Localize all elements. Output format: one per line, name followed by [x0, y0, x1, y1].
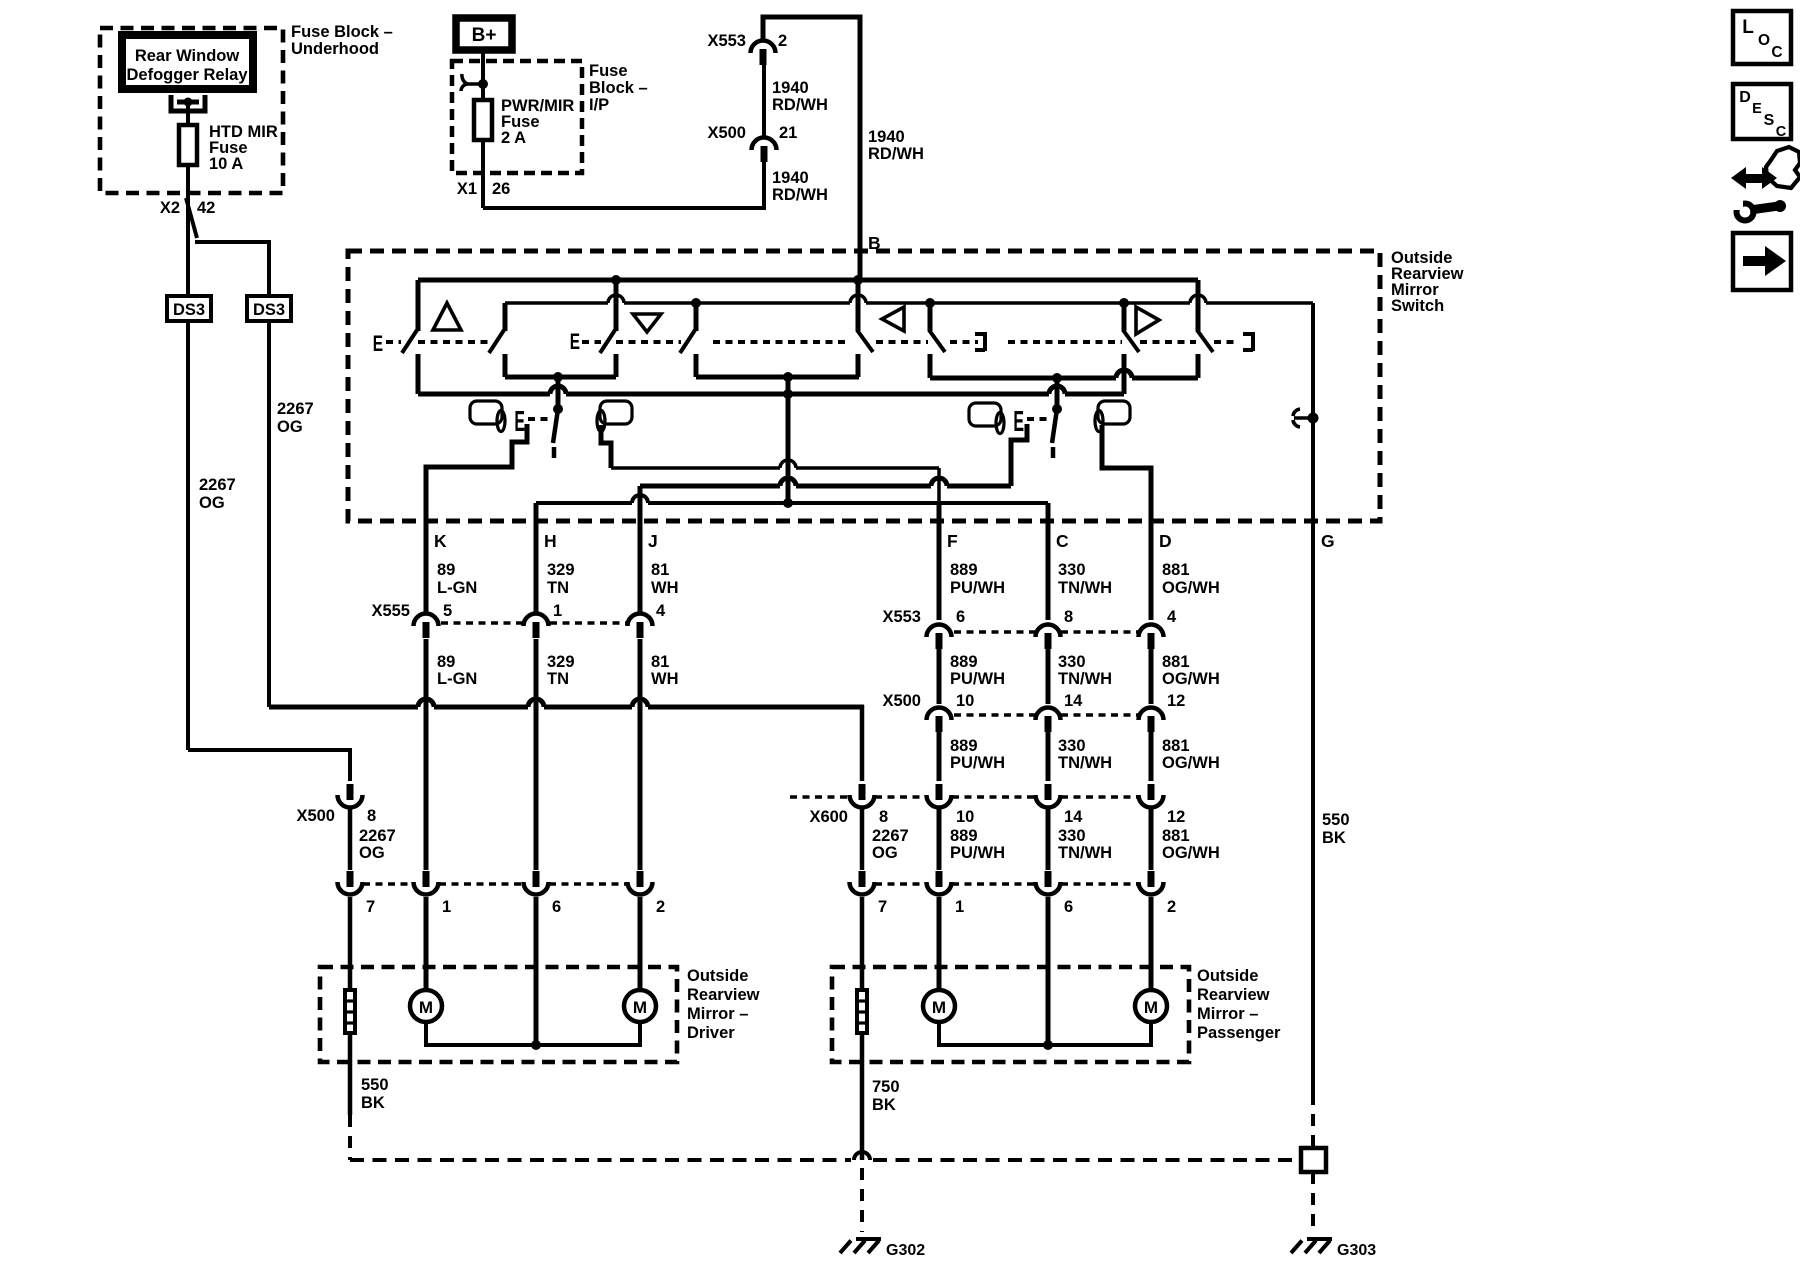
- connector X500 pin 10: [927, 708, 952, 721]
- svg-text:89: 89: [437, 653, 455, 671]
- svg-text:BK: BK: [1322, 829, 1346, 847]
- svg-text:1940: 1940: [772, 79, 809, 97]
- svg-text:L-GN: L-GN: [437, 670, 477, 688]
- svg-text:12: 12: [1167, 808, 1185, 826]
- svg-text:6: 6: [552, 898, 561, 916]
- svg-text:42: 42: [197, 199, 215, 217]
- svg-text:4: 4: [656, 602, 666, 620]
- svg-text:M: M: [932, 998, 946, 1017]
- svg-text:6: 6: [956, 608, 965, 626]
- fuse clip terminal: [461, 74, 483, 91]
- switch blade left-left: [857, 330, 873, 352]
- svg-text:881: 881: [1162, 653, 1190, 671]
- svg-text:WH: WH: [651, 670, 679, 688]
- wire 1940 RD/WH between connectors: [762, 65, 766, 137]
- svg-text:F: F: [947, 531, 958, 551]
- wire dashed below splice: [1311, 1172, 1315, 1232]
- driver mirror connector pin 2: [637, 871, 644, 887]
- wire 2267 corner down to X600: [860, 705, 865, 781]
- svg-text:M: M: [1144, 998, 1158, 1017]
- svg-text:750: 750: [872, 1078, 900, 1096]
- ground G302: [856, 1237, 881, 1241]
- outside rearview mirror driver dashed box: [320, 967, 677, 1062]
- switch second rail: [505, 301, 608, 305]
- wire select passenger from bracket: [1055, 378, 1060, 409]
- fuse F1 HTD MIR 10A: [179, 125, 197, 165]
- relay K: Rear Window Defogger Relay box: [122, 35, 253, 89]
- connector X553 dashes: [954, 630, 1035, 633]
- icon forward arrow box: [1733, 233, 1791, 290]
- svg-text:WH: WH: [651, 579, 679, 597]
- svg-text:DS3: DS3: [173, 301, 205, 319]
- svg-text:DS3: DS3: [253, 301, 285, 319]
- connector X553 pin 2: [751, 40, 776, 53]
- svg-text:Fuse: Fuse: [589, 62, 628, 80]
- svg-text:C: C: [1771, 44, 1782, 61]
- symbol triangle up: [433, 303, 461, 330]
- wire G inside box: [1311, 303, 1315, 1093]
- passenger mirror connector pin 7: [859, 871, 866, 887]
- svg-text:881: 881: [1162, 827, 1190, 845]
- svg-text:G303: G303: [1337, 1242, 1376, 1259]
- passenger mirror connector pin 1: [936, 871, 943, 887]
- svg-text:X553: X553: [707, 32, 746, 50]
- svg-text:889: 889: [950, 561, 978, 579]
- svg-text:Block –: Block –: [589, 79, 648, 97]
- svg-text:8: 8: [367, 807, 376, 825]
- wire G dashed above splice: [1311, 1093, 1315, 1148]
- wire D pin down: [1149, 468, 1154, 620]
- row C from H: [536, 501, 632, 505]
- svg-text:L: L: [1742, 17, 1754, 38]
- svg-text:RD/WH: RD/WH: [868, 145, 924, 163]
- svg-text:330: 330: [1058, 827, 1086, 845]
- motor M passenger vertical: [923, 990, 955, 1022]
- svg-text:329: 329: [547, 561, 575, 579]
- svg-text:889: 889: [950, 737, 978, 755]
- svg-text:Passenger: Passenger: [1197, 1024, 1281, 1042]
- splice DS3 right box: [247, 296, 291, 321]
- wire 2267 to driver mirror connector: [348, 808, 353, 870]
- driver mirror connector pin 6: [533, 871, 540, 887]
- icon repair instructions wrench: [1737, 204, 1754, 221]
- svg-text:O: O: [1758, 32, 1770, 49]
- passenger motor common bus: [939, 1022, 1151, 1045]
- wire select driver from bracket: [556, 377, 561, 409]
- linkage end bracket 1: [975, 332, 985, 351]
- svg-text:J: J: [648, 531, 658, 551]
- svg-text:D: D: [1739, 89, 1751, 106]
- wire passenger heater to 750 BK: [860, 1033, 865, 1160]
- svg-text:2267: 2267: [277, 400, 314, 418]
- wires F C D between X500 X600: [937, 731, 942, 781]
- switch bottom rail: [418, 392, 550, 397]
- driver mirror connector pin 1: [423, 871, 430, 887]
- svg-text:BK: BK: [872, 1096, 896, 1114]
- connector X600 pin 8: [859, 784, 866, 800]
- svg-text:6: 6: [1064, 898, 1073, 916]
- wire 1940 RD/WH run to X500: [483, 162, 764, 208]
- svg-text:81: 81: [651, 653, 669, 671]
- chassis clip on G wire: [1293, 409, 1311, 427]
- svg-text:E: E: [1013, 405, 1024, 437]
- svg-text:OG/WH: OG/WH: [1162, 579, 1220, 597]
- select switch passenger: [1052, 404, 1062, 414]
- svg-text:1: 1: [955, 898, 964, 916]
- svg-text:2 A: 2 A: [501, 129, 526, 147]
- svg-text:21: 21: [779, 124, 797, 142]
- wire J to driver motor 2: [638, 897, 643, 990]
- icon DESC box: [1733, 84, 1791, 139]
- svg-text:L-GN: L-GN: [437, 579, 477, 597]
- svg-text:TN/WH: TN/WH: [1058, 670, 1112, 688]
- wires F C D between X553 X500: [937, 648, 942, 704]
- switch up contact stubs: [416, 280, 421, 331]
- svg-text:X500: X500: [707, 124, 746, 142]
- mirror icon driver large: [600, 401, 632, 424]
- wire H below X555: [534, 639, 539, 870]
- splice square on G wire: [1301, 1148, 1326, 1172]
- wire H pin down: [534, 503, 539, 613]
- svg-text:E: E: [373, 332, 383, 356]
- connector X600 pin 10: [936, 784, 943, 800]
- svg-text:2: 2: [778, 32, 787, 50]
- row B from J: [640, 484, 780, 489]
- svg-text:RD/WH: RD/WH: [772, 186, 828, 204]
- icon LOC box: [1733, 11, 1791, 64]
- svg-text:2267: 2267: [872, 827, 909, 845]
- mirror icon driver small: [470, 401, 502, 424]
- svg-text:1: 1: [442, 898, 451, 916]
- wire splice to right DS3: [195, 242, 269, 296]
- linkage dashes up pair: [386, 340, 401, 344]
- passenger mirror connector pin 2: [1148, 871, 1155, 887]
- wire J below X555: [638, 639, 643, 870]
- svg-text:Rearview: Rearview: [1197, 986, 1270, 1004]
- svg-text:8: 8: [879, 808, 888, 826]
- svg-text:D: D: [1159, 531, 1172, 551]
- svg-text:Outside: Outside: [1197, 967, 1258, 985]
- svg-text:330: 330: [1058, 561, 1086, 579]
- svg-text:10 A: 10 A: [209, 155, 243, 173]
- wire 750 BK dashed to G302: [860, 1168, 864, 1232]
- connector X553 pin 8: [1036, 625, 1061, 638]
- connector X600 pin 14: [1045, 784, 1052, 800]
- wire fuse to X1-26: [481, 140, 485, 208]
- svg-text:C: C: [1056, 531, 1069, 551]
- svg-text:Mirror –: Mirror –: [687, 1005, 748, 1023]
- wire D to passenger motor 2: [1149, 897, 1154, 990]
- svg-text:Mirror –: Mirror –: [1197, 1005, 1258, 1023]
- switch blade down-right: [680, 330, 695, 353]
- svg-text:M: M: [633, 998, 647, 1017]
- wire relay terminal to fuse: [186, 104, 190, 125]
- svg-text:OG: OG: [277, 418, 303, 436]
- svg-text:1: 1: [553, 602, 562, 620]
- wire driver heater to 550 BK: [348, 1033, 353, 1115]
- motor M driver horizontal: [624, 990, 656, 1022]
- svg-text:TN/WH: TN/WH: [1058, 579, 1112, 597]
- fuse F2 PWR/MIR 2A: [474, 100, 492, 140]
- connector X553 pin 6: [927, 625, 952, 638]
- svg-text:Fuse Block –: Fuse Block –: [291, 23, 393, 41]
- wire 2267 OG from left DS3: [186, 321, 190, 750]
- wire C to passenger motor common bus: [1046, 897, 1051, 1045]
- connector X500 pin 14: [1036, 708, 1061, 721]
- svg-text:PU/WH: PU/WH: [950, 844, 1005, 862]
- switch blade right-right: [1197, 330, 1213, 352]
- connector X553 pin 4: [1139, 625, 1164, 638]
- connector X600 dashes: [790, 795, 849, 798]
- svg-text:E: E: [1752, 101, 1762, 117]
- svg-text:2267: 2267: [359, 827, 396, 845]
- wire 2267 OG thick run: [269, 705, 418, 710]
- motor M driver vertical: [410, 990, 442, 1022]
- svg-text:G: G: [1321, 531, 1335, 551]
- wire center vertical to row C: [786, 377, 791, 503]
- svg-text:X555: X555: [371, 602, 410, 620]
- svg-text:E: E: [570, 330, 580, 354]
- svg-text:7: 7: [878, 898, 887, 916]
- symbol triangle right: [1136, 307, 1159, 334]
- bracket driver adjust: [505, 375, 616, 380]
- wire K pin down: [424, 467, 429, 613]
- svg-text:BK: BK: [361, 1094, 385, 1112]
- svg-text:I/P: I/P: [589, 96, 609, 114]
- mirror icon passenger large: [1098, 401, 1130, 424]
- svg-text:4: 4: [1167, 608, 1177, 626]
- icon repair instructions panel outline: [1766, 147, 1800, 188]
- svg-text:OG/WH: OG/WH: [1162, 844, 1220, 862]
- connector X500 pin 8 left: [347, 784, 354, 800]
- svg-text:E: E: [514, 405, 525, 437]
- svg-text:PU/WH: PU/WH: [950, 579, 1005, 597]
- svg-text:881: 881: [1162, 561, 1190, 579]
- heater element passenger: [857, 990, 867, 1033]
- svg-text:M: M: [419, 998, 433, 1017]
- linkage end bracket 2: [1243, 332, 1253, 351]
- connector X600 pin 12: [1148, 784, 1155, 800]
- svg-text:X500: X500: [882, 692, 921, 710]
- wire into driver heater: [348, 897, 353, 990]
- svg-text:10: 10: [956, 808, 974, 826]
- svg-text:X553: X553: [882, 608, 921, 626]
- motor M passenger horizontal: [1135, 990, 1167, 1022]
- switch feed rail top: [418, 278, 1198, 283]
- svg-text:B+: B+: [472, 25, 497, 46]
- svg-text:12: 12: [1167, 692, 1185, 710]
- svg-text:TN: TN: [547, 670, 569, 688]
- relay output terminal: [171, 95, 205, 111]
- connector X555 pin 1: [524, 614, 549, 627]
- svg-text:1940: 1940: [772, 169, 809, 187]
- passenger mirror connector dashes: [875, 882, 926, 885]
- svg-text:89: 89: [437, 561, 455, 579]
- splice DS3 left box: [167, 296, 211, 321]
- svg-text:2267: 2267: [199, 476, 236, 494]
- svg-text:K: K: [434, 531, 447, 551]
- switch lower stubs: [416, 354, 421, 394]
- fuse block I/P dashed box: [452, 61, 582, 173]
- wire B+ into fuse block: [481, 50, 485, 100]
- switch blade right-left: [1123, 330, 1139, 352]
- svg-text:329: 329: [547, 653, 575, 671]
- ground G303: [1307, 1237, 1332, 1241]
- svg-text:TN/WH: TN/WH: [1058, 844, 1112, 862]
- svg-text:881: 881: [1162, 737, 1190, 755]
- svg-text:X2: X2: [160, 199, 180, 217]
- wire 1940 RD/WH to switch pin B: [763, 17, 860, 280]
- svg-text:PU/WH: PU/WH: [950, 670, 1005, 688]
- wire F pin down: [937, 503, 942, 620]
- svg-text:H: H: [544, 531, 557, 551]
- bracket passenger adjust: [930, 376, 1116, 381]
- wire 550 BK dashed drop: [348, 1115, 352, 1160]
- wire C pin down: [1046, 503, 1051, 620]
- mirror icon passenger small: [969, 403, 1001, 426]
- svg-text:X1: X1: [457, 180, 477, 198]
- wire left branch to X500-8: [188, 750, 350, 781]
- svg-text:8: 8: [1064, 608, 1073, 626]
- linkage dashes across to left pair: [713, 340, 845, 344]
- svg-text:7: 7: [366, 898, 375, 916]
- svg-text:PU/WH: PU/WH: [950, 754, 1005, 772]
- svg-text:81: 81: [651, 561, 669, 579]
- svg-text:889: 889: [950, 827, 978, 845]
- linkage dashes left pair: [876, 340, 928, 344]
- wire H to driver motor common bus: [534, 897, 539, 1045]
- switch blade left-right: [929, 330, 945, 352]
- svg-text:Switch: Switch: [1391, 297, 1444, 315]
- svg-text:10: 10: [956, 692, 974, 710]
- connector X555 pin 5: [414, 614, 439, 627]
- connector X500 pin 21: [752, 138, 777, 151]
- wire fuse to X2-42: [186, 165, 190, 296]
- connector X500 pin 12: [1139, 708, 1164, 721]
- svg-text:330: 330: [1058, 653, 1086, 671]
- svg-text:550: 550: [361, 1076, 389, 1094]
- connector X555 dashes: [441, 621, 523, 624]
- svg-text:X500: X500: [296, 807, 335, 825]
- switch blade up-left: [402, 330, 417, 353]
- svg-text:TN/WH: TN/WH: [1058, 754, 1112, 772]
- svg-text:2: 2: [1167, 898, 1176, 916]
- svg-text:C: C: [1776, 124, 1787, 140]
- wire select driver left contact to K: [426, 424, 527, 521]
- wire K to driver motor 1: [424, 897, 429, 990]
- driver motor common bus: [426, 1022, 640, 1045]
- select switch driver: [553, 404, 563, 414]
- fuse block underhood dashed box: [100, 28, 283, 193]
- svg-text:Defogger Relay: Defogger Relay: [126, 66, 248, 84]
- svg-text:889: 889: [950, 653, 978, 671]
- driver mirror connector pin 7: [347, 871, 354, 887]
- wire select passenger right contact to D: [1102, 425, 1151, 521]
- svg-text:14: 14: [1064, 692, 1083, 710]
- svg-text:1940: 1940: [868, 128, 905, 146]
- svg-text:X600: X600: [809, 808, 848, 826]
- svg-text:550: 550: [1322, 811, 1350, 829]
- wire J pin down: [638, 486, 643, 613]
- svg-text:26: 26: [492, 180, 510, 198]
- row A: [611, 466, 780, 470]
- wire into passenger heater: [860, 897, 865, 990]
- svg-text:OG/WH: OG/WH: [1162, 754, 1220, 772]
- switch blade down-left: [600, 330, 615, 353]
- svg-text:Driver: Driver: [687, 1024, 735, 1042]
- svg-text:TN: TN: [547, 579, 569, 597]
- heater element driver: [345, 990, 355, 1033]
- battery feed B+ box: [456, 18, 512, 50]
- svg-text:5: 5: [443, 602, 452, 620]
- svg-text:Rear Window: Rear Window: [135, 47, 240, 65]
- driver mirror connector dashes: [363, 882, 413, 885]
- connector X555 pin 4: [628, 613, 653, 626]
- switch blade up-right: [489, 330, 504, 353]
- svg-text:Outside: Outside: [687, 967, 748, 985]
- svg-text:G302: G302: [886, 1242, 925, 1259]
- svg-text:RD/WH: RD/WH: [772, 96, 828, 114]
- svg-text:Rearview: Rearview: [687, 986, 760, 1004]
- wire 2267 OG from right DS3: [267, 321, 271, 707]
- svg-text:S: S: [1764, 112, 1775, 129]
- symbol triangle left: [882, 307, 904, 331]
- connector X500 dashes: [954, 713, 1035, 716]
- linkage dashes right pair: [1008, 340, 1122, 344]
- wire K below X555: [424, 639, 429, 870]
- wire select driver right contact to row A: [601, 425, 611, 468]
- wire row A down to row C: [937, 468, 941, 521]
- svg-text:2: 2: [656, 898, 665, 916]
- svg-text:OG: OG: [359, 844, 385, 862]
- svg-text:OG: OG: [872, 844, 898, 862]
- ground rail dashed: [350, 1158, 851, 1162]
- wire F to passenger motor 1: [937, 897, 942, 990]
- svg-text:OG: OG: [199, 494, 225, 512]
- outside rearview mirror passenger dashed box: [832, 967, 1189, 1062]
- symbol triangle down: [633, 314, 661, 332]
- bracket center shared: [696, 375, 859, 380]
- wires to mirror connectors right: [860, 808, 865, 870]
- passenger mirror connector pin 6: [1045, 871, 1052, 887]
- wire row B up to select passenger left contact: [1011, 424, 1027, 486]
- icon repair instructions arrows: [1742, 174, 1766, 183]
- svg-text:14: 14: [1064, 808, 1083, 826]
- outside rearview mirror switch dashed box: [348, 251, 1380, 521]
- svg-text:Underhood: Underhood: [291, 40, 379, 58]
- svg-text:OG/WH: OG/WH: [1162, 670, 1220, 688]
- svg-text:330: 330: [1058, 737, 1086, 755]
